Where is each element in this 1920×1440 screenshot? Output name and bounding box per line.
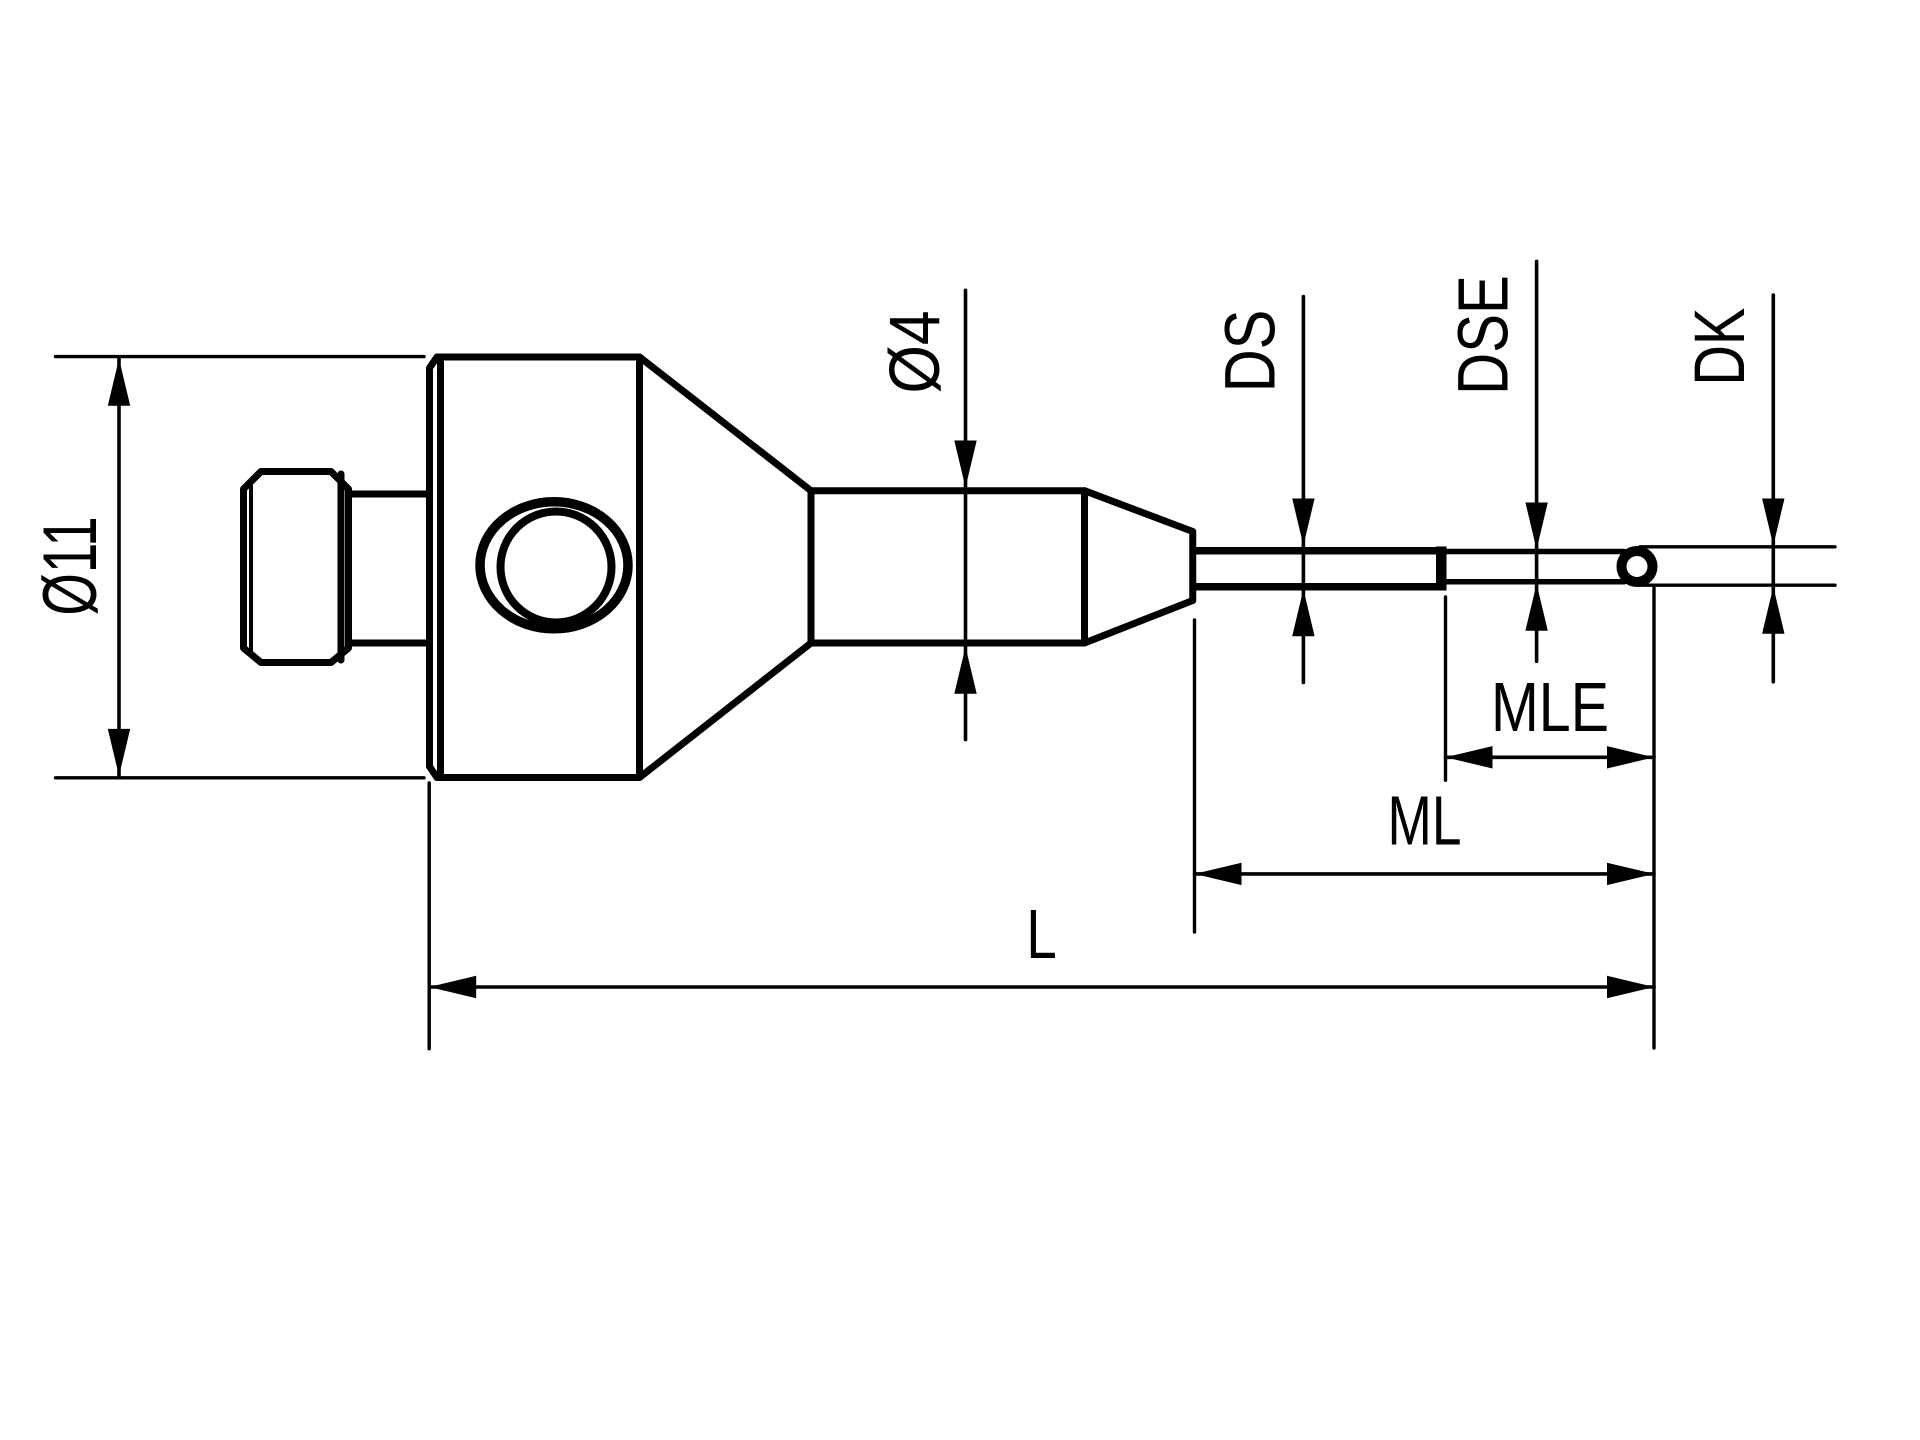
DK extension line bottom (1640, 584, 1835, 587)
thin stem DSE section (1446, 552, 1624, 582)
DK arrow up (1762, 587, 1784, 634)
neck cylinder (349, 494, 428, 643)
DSE dimension line (1535, 261, 1539, 661)
L dimension line (429, 985, 1654, 989)
L arrow left (429, 976, 476, 998)
bore circle inner (501, 512, 612, 623)
DSE arrow up (1525, 584, 1547, 631)
ML extension line left (1193, 620, 1196, 932)
Ø11 extension line top (56, 355, 425, 358)
Ø11 extension line bottom (56, 776, 425, 779)
svg-text:L: L (1026, 896, 1056, 974)
stem cylinder Ø4 (811, 491, 1085, 643)
ML arrow right (1607, 863, 1654, 885)
thread relief line left (249, 480, 253, 654)
Ø11 dimension line (117, 359, 121, 776)
Ø4 arrow down (954, 441, 976, 488)
DS-DSE junction collar (1436, 547, 1447, 591)
ML dimension line (1195, 872, 1655, 876)
DK extension line top (1640, 545, 1835, 548)
DS dimension line (1302, 297, 1306, 683)
svg-text:ML: ML (1388, 783, 1462, 861)
svg-text:MLE: MLE (1491, 668, 1609, 747)
thread circle outer (480, 502, 628, 629)
stylus ball DK (1622, 551, 1653, 582)
DK dimension line (1772, 295, 1776, 682)
flange/body division line (437, 357, 444, 778)
cone body-to-stem (640, 357, 812, 778)
DS arrow up (1292, 589, 1314, 636)
body outline (430, 357, 640, 778)
svg-text:DS: DS (1211, 310, 1290, 393)
DS arrow down (1292, 499, 1314, 546)
svg-text:DK: DK (1680, 308, 1760, 386)
DK arrow down (1762, 499, 1784, 546)
Ø4 arrow up (954, 647, 976, 694)
svg-text:DSE: DSE (1443, 275, 1523, 395)
svg-text:Ø11: Ø11 (28, 516, 113, 615)
Ø4 dimension line (964, 290, 968, 739)
MLE extension line left (1444, 597, 1447, 780)
threaded plug outline (244, 472, 349, 663)
L extension line left (428, 783, 431, 1049)
MLE arrow right (1607, 746, 1654, 768)
MLE arrow left (1446, 746, 1493, 768)
Ø11 arrow up (108, 359, 130, 406)
thread relief line right (338, 474, 345, 660)
MLE dimension line (1446, 755, 1655, 759)
DSE arrow down (1525, 503, 1547, 550)
thin stem DS section (1196, 551, 1441, 587)
ML arrow left (1195, 863, 1242, 885)
flange outer edge (427, 368, 432, 767)
svg-text:Ø4: Ø4 (875, 310, 955, 393)
taper stem-to-thin (1085, 491, 1193, 643)
common right extension line (1652, 588, 1655, 1048)
L arrow right (1607, 976, 1654, 998)
Ø11 arrow down (108, 729, 130, 776)
